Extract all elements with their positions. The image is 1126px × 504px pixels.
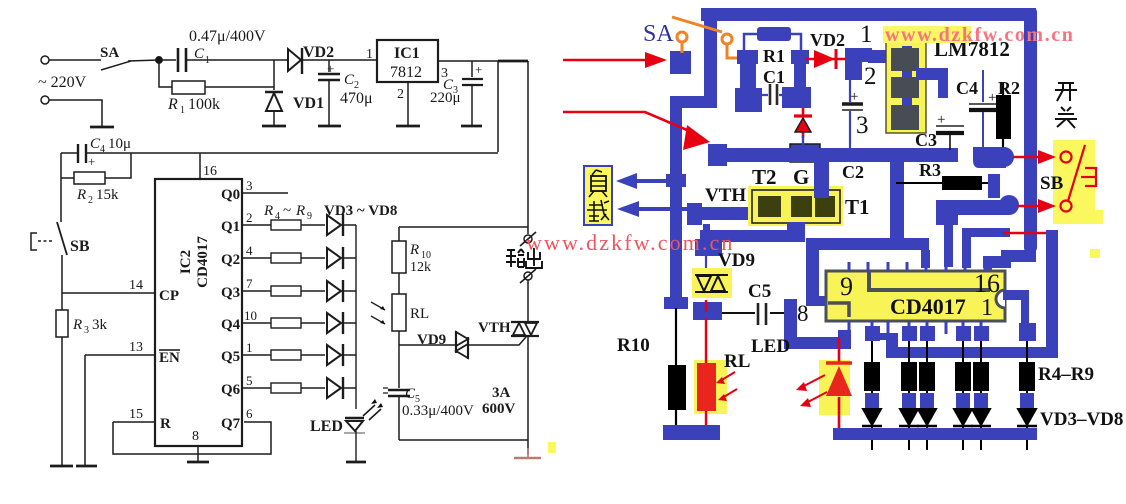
wire node to C1 bbox=[159, 59, 176, 61]
resistor R1 body (blue) bbox=[757, 27, 791, 41]
svg-text:C1: C1 bbox=[763, 67, 785, 87]
capacitor C1 bbox=[762, 94, 788, 96]
svg-text:VTH: VTH bbox=[705, 185, 746, 206]
svg-text:Q6: Q6 bbox=[221, 382, 241, 398]
svg-text:5: 5 bbox=[246, 373, 253, 388]
ground (neutral) bbox=[90, 126, 114, 129]
svg-text:CD4017: CD4017 bbox=[195, 236, 211, 288]
svg-text:1: 1 bbox=[981, 295, 993, 321]
capacitor C3 bbox=[936, 112, 964, 150]
svg-text:8: 8 bbox=[797, 301, 809, 326]
wire trace K + stub bbox=[962, 228, 1010, 237]
svg-text:3: 3 bbox=[84, 325, 89, 336]
wire C5 to bottom bbox=[398, 396, 400, 440]
label 载 (drawn) bbox=[587, 200, 609, 221]
node via pad upper bbox=[973, 147, 1006, 168]
svg-text:8: 8 bbox=[192, 429, 199, 444]
wire RL leads (red) bbox=[705, 318, 707, 430]
wire trace L under chip bbox=[886, 347, 1058, 358]
red arrow to junction pad bbox=[563, 112, 694, 133]
wire +12V rail down to C4 line bbox=[497, 61, 499, 152]
wire R10 top row bbox=[399, 226, 528, 228]
wire red link to SB row3 bbox=[1003, 232, 1053, 234]
resistor/diode column 5 bbox=[971, 341, 991, 450]
resistor R4 bbox=[271, 220, 301, 230]
wire C1 to VD2 bbox=[186, 59, 287, 61]
svg-text:SB: SB bbox=[1040, 173, 1064, 194]
wire R1 to VD1 top bbox=[205, 86, 274, 88]
wire right border bbox=[1024, 8, 1037, 252]
svg-text:R: R bbox=[72, 317, 82, 333]
label 出 (drawn) bbox=[526, 248, 542, 268]
wire R10 to RL bbox=[398, 273, 400, 294]
diode VD8 bbox=[327, 378, 341, 398]
resistor R6 bbox=[271, 286, 301, 296]
svg-text:100k: 100k bbox=[188, 96, 220, 113]
svg-text:1: 1 bbox=[860, 21, 873, 48]
svg-text:14: 14 bbox=[129, 278, 143, 293]
node column6 pad bbox=[1019, 323, 1036, 341]
svg-text:Q5: Q5 bbox=[221, 349, 240, 365]
diac VD9 bbox=[455, 331, 457, 353]
svg-text:VD3–VD8: VD3–VD8 bbox=[1040, 409, 1123, 430]
svg-text:VD2: VD2 bbox=[303, 44, 334, 61]
svg-text:VD1: VD1 bbox=[293, 95, 324, 112]
svg-text:Q2: Q2 bbox=[221, 252, 240, 268]
wire G vertical to trace A bbox=[814, 160, 829, 198]
node via dot upper bbox=[994, 147, 1014, 167]
node pad (col2) bbox=[902, 326, 917, 341]
IC2 CD4017 box bbox=[155, 179, 242, 446]
wire pin8 to ground bbox=[197, 446, 199, 461]
wire pin16 bbox=[199, 153, 201, 179]
svg-text:Q1: Q1 bbox=[221, 219, 240, 235]
wire left border main bbox=[670, 96, 682, 304]
svg-text:IC2: IC2 bbox=[178, 250, 194, 274]
wire IC1 pin3 output bbox=[438, 60, 498, 62]
ground (EN) bbox=[76, 465, 97, 468]
label 开 (drawn) bbox=[1055, 83, 1077, 101]
node C1 right pad column bbox=[782, 50, 811, 108]
svg-text:C4: C4 bbox=[956, 78, 978, 98]
ground (rail, faded) bbox=[514, 457, 541, 460]
resistor R10 bbox=[398, 227, 400, 241]
node pad (col5) bbox=[974, 326, 989, 341]
wire neutral to ground bbox=[49, 100, 102, 126]
wire vertical J to chip pin bbox=[944, 215, 953, 267]
wire node down to R1 bbox=[159, 60, 172, 87]
svg-text:16: 16 bbox=[974, 269, 1000, 298]
resistor R7 bbox=[271, 318, 301, 328]
svg-text:+: + bbox=[327, 61, 334, 76]
resistor R2 (black) bbox=[996, 95, 1011, 139]
wire L left step bbox=[871, 333, 898, 358]
terminal 输出 upper bbox=[524, 235, 532, 243]
row Q5: wire bbox=[242, 354, 356, 356]
node trace A junction pad bbox=[708, 144, 727, 166]
watermark top (highlight) bbox=[883, 26, 971, 43]
node left border arrow pad bbox=[666, 174, 686, 187]
capacitor C3 bbox=[462, 78, 483, 80]
red arrow to SB bottom bbox=[1017, 205, 1040, 207]
svg-text:2: 2 bbox=[397, 87, 404, 102]
node VTH pad bbox=[687, 203, 702, 225]
node VD9 bottom pad bbox=[693, 302, 722, 320]
svg-text:VD9: VD9 bbox=[417, 332, 446, 348]
svg-text:T2: T2 bbox=[752, 165, 777, 189]
regulator LM7812 (yellow body) bbox=[886, 41, 926, 133]
switch SB symbol (red) bbox=[1061, 145, 1097, 212]
resistor/diode column 4 bbox=[953, 341, 973, 450]
resistor/diode column 3 bbox=[917, 341, 937, 450]
capacitor C4 bbox=[78, 144, 86, 163]
wire R2 leads bbox=[1002, 82, 1004, 156]
svg-text:T1: T1 bbox=[845, 195, 870, 219]
svg-text:R4–R9: R4–R9 bbox=[1038, 364, 1094, 385]
capacitor C1 bbox=[178, 48, 186, 72]
ground (VD1) bbox=[262, 125, 286, 128]
red arrow to SB top bbox=[1013, 156, 1040, 158]
svg-text:www.dzkfw.com.cn: www.dzkfw.com.cn bbox=[526, 230, 735, 255]
resistor/diode column 1 bbox=[862, 341, 882, 450]
wire C2 branch bbox=[328, 60, 330, 72]
label 负 (drawn) bbox=[589, 170, 607, 197]
wire trace I (C5 to LED riser) bbox=[784, 299, 851, 349]
svg-text:9: 9 bbox=[840, 272, 853, 301]
switch SA blade bbox=[101, 61, 131, 70]
ground (pin8) bbox=[187, 461, 209, 464]
svg-text:VD3 ~ VD8: VD3 ~ VD8 bbox=[324, 203, 397, 219]
label 输 (drawn) bbox=[506, 249, 524, 267]
diode VD2 bbox=[288, 49, 301, 71]
wire R3 leads bbox=[896, 182, 996, 184]
wire VD1 branch vertical bbox=[273, 60, 275, 90]
wire right column to R4 row bbox=[1046, 230, 1058, 358]
svg-text:3: 3 bbox=[856, 112, 869, 139]
IC pin8 notch bbox=[828, 303, 849, 317]
resistor R9 bbox=[271, 383, 301, 393]
wire chip bottom pins bbox=[849, 321, 981, 334]
svg-text:16: 16 bbox=[203, 164, 217, 179]
resistor/diode column 2 bbox=[899, 341, 919, 450]
node SA pad bbox=[670, 51, 691, 74]
wire R3 left lead over trace bbox=[896, 182, 942, 184]
node left border bottom pad bbox=[664, 297, 688, 309]
node pad (col4) bbox=[956, 326, 971, 341]
wire R1 left lead bbox=[744, 34, 757, 52]
resistor R2 bbox=[74, 172, 105, 184]
terminal L (live) bbox=[41, 56, 49, 64]
wire VTH to bottom rail bbox=[527, 336, 529, 455]
svg-text:7: 7 bbox=[246, 276, 253, 291]
pin pad T2 bbox=[758, 196, 781, 217]
svg-text:R: R bbox=[409, 242, 419, 258]
wire VTH pad to T-block bbox=[698, 207, 752, 220]
svg-text:www.dzkfw.com.cn: www.dzkfw.com.cn bbox=[885, 24, 1075, 46]
node pad after VD2 (pin1 area) bbox=[845, 48, 872, 80]
svg-text:4: 4 bbox=[275, 211, 280, 222]
svg-text:600V: 600V bbox=[482, 401, 516, 417]
photoresistor RL (yellow+red) bbox=[694, 360, 727, 414]
wire R3 right elbow to via bbox=[988, 174, 1000, 198]
svg-text:220μ: 220μ bbox=[430, 90, 461, 106]
node trace E left pad bbox=[936, 200, 958, 225]
svg-text:VTH: VTH bbox=[478, 320, 511, 336]
wire SB to CP node bbox=[61, 255, 63, 310]
wire Z from border to pin16 bbox=[984, 250, 1036, 271]
wire blue bar behind pads bbox=[902, 46, 912, 130]
wire R3 to ground bbox=[61, 337, 63, 466]
ground (LED) bbox=[346, 461, 366, 464]
node A junction dot bbox=[156, 57, 162, 63]
wire C2 to trace A bbox=[849, 80, 851, 148]
svg-text:13: 13 bbox=[129, 340, 143, 355]
pin pad 1 (LM7812) bbox=[891, 48, 919, 71]
wire LED to ground bbox=[355, 431, 357, 462]
wire G right stub to chip pin bbox=[921, 250, 930, 268]
svg-text:R: R bbox=[167, 96, 178, 113]
svg-text:C: C bbox=[194, 46, 205, 62]
svg-text:RL: RL bbox=[410, 306, 429, 322]
wire pin1 elbow to column 6 bbox=[1003, 290, 1029, 323]
resistor R5 bbox=[271, 253, 301, 263]
wire H foot into pin8/9 bbox=[806, 296, 828, 306]
node R10/RL bottom bar bbox=[663, 425, 720, 440]
capacitor C5 bbox=[388, 389, 410, 391]
wire T1 pad down bbox=[787, 222, 805, 242]
pin pad 3 (LM7812) bbox=[891, 105, 919, 130]
svg-text:R3: R3 bbox=[919, 160, 941, 180]
wire C5 branch bbox=[398, 345, 400, 388]
wire C3 to ground bbox=[471, 85, 473, 126]
wire R1 right lead bbox=[791, 34, 801, 52]
svg-text:C5: C5 bbox=[748, 281, 771, 302]
ground (C3) bbox=[461, 125, 482, 128]
diode VD3 bbox=[327, 215, 341, 235]
wire trace G horizontal bbox=[806, 238, 929, 250]
LED arrows bbox=[363, 405, 381, 420]
svg-text:CD4017: CD4017 bbox=[890, 294, 966, 319]
wire right rail down bbox=[527, 61, 529, 234]
wire load arrow 1 bbox=[636, 179, 667, 183]
svg-text:1: 1 bbox=[205, 55, 210, 66]
svg-text:4: 4 bbox=[100, 144, 105, 155]
diode VD1 bbox=[265, 91, 283, 93]
LED arrows (red) bbox=[802, 375, 827, 403]
svg-text:CP: CP bbox=[159, 288, 179, 304]
capacitor C4 bbox=[969, 70, 997, 148]
wire C2 to ground bbox=[328, 80, 330, 126]
resistor/diode column 6 bbox=[1017, 341, 1037, 450]
wire RL to VD9 node bbox=[398, 331, 400, 345]
svg-text:C3: C3 bbox=[915, 130, 937, 150]
diode VD1 (red, right panel) bbox=[794, 100, 812, 150]
svg-text:~: ~ bbox=[283, 203, 291, 219]
svg-text:1: 1 bbox=[246, 340, 253, 355]
svg-text:SA: SA bbox=[100, 45, 119, 61]
switch SB highlight (yellow) bbox=[1053, 140, 1095, 224]
wire C4 top rail bbox=[61, 152, 498, 154]
svg-text:3: 3 bbox=[246, 178, 253, 193]
red arrow to SA pad bbox=[563, 59, 646, 62]
svg-text:LED: LED bbox=[310, 418, 343, 435]
svg-text:10μ: 10μ bbox=[108, 136, 131, 152]
svg-text:SA: SA bbox=[643, 21, 674, 47]
row Q4: wire bbox=[242, 322, 356, 324]
wire load arrow 2 bbox=[638, 207, 690, 211]
wire trace E bbox=[936, 200, 1009, 215]
svg-text:SB: SB bbox=[70, 238, 90, 255]
svg-text:EN: EN bbox=[159, 350, 180, 366]
diac VD9 (yellow + symbol) bbox=[692, 268, 732, 298]
node 负载 box bbox=[584, 166, 612, 225]
IC CD4017 (yellow body) bbox=[826, 271, 1005, 321]
pin pad T1 bbox=[815, 196, 835, 217]
svg-text:R: R bbox=[76, 187, 86, 203]
wire R2 taps bbox=[61, 153, 131, 178]
wire VD2 to IC1 pin1 bbox=[302, 59, 377, 61]
wire SA to node bbox=[128, 60, 159, 61]
svg-text:0.33μ/400V: 0.33μ/400V bbox=[402, 403, 474, 419]
svg-text:12k: 12k bbox=[410, 260, 431, 275]
svg-text:+: + bbox=[850, 89, 858, 105]
LED indicator bbox=[345, 417, 364, 419]
diode VD2 (red) bbox=[806, 49, 856, 69]
resistor R3 bbox=[56, 310, 68, 337]
switch SA (orange) bbox=[672, 17, 744, 58]
node pad bump on trace A bbox=[790, 144, 820, 162]
wire main +供电 trace A bbox=[708, 148, 958, 162]
terminal 输出 lower bbox=[524, 272, 532, 280]
svg-text:G: G bbox=[793, 165, 809, 189]
wire bottom row bbox=[399, 439, 528, 441]
svg-text:2: 2 bbox=[246, 210, 253, 225]
wire T2 stem down bbox=[703, 224, 710, 242]
svg-text:6: 6 bbox=[246, 406, 253, 421]
op-amp IC1 7812 box bbox=[377, 40, 438, 82]
svg-text:470μ: 470μ bbox=[340, 90, 373, 107]
wire diode bus vertical bbox=[355, 225, 357, 409]
node via dot lower bbox=[999, 195, 1019, 215]
resistor R10 (black) bbox=[668, 365, 686, 410]
svg-text:R10: R10 bbox=[617, 335, 650, 356]
wire ground bar bottom bbox=[833, 428, 1037, 440]
diode VD4 bbox=[327, 248, 341, 268]
node VD9 top pad bbox=[695, 239, 722, 256]
svg-text:15k: 15k bbox=[96, 187, 119, 203]
wire node to VD9 bbox=[399, 344, 456, 346]
svg-text:9: 9 bbox=[307, 211, 312, 222]
resistor R1 bbox=[172, 81, 205, 94]
svg-text:+: + bbox=[88, 154, 95, 169]
wire C3 branch bbox=[471, 61, 473, 77]
IC pin1 notch bbox=[996, 290, 1005, 308]
terminal N (neutral) bbox=[41, 96, 49, 104]
capacitor C2 bbox=[842, 102, 863, 106]
ground (C2) bbox=[318, 125, 341, 128]
node C1 left pad column bbox=[735, 50, 762, 112]
photoresistor RL bbox=[392, 294, 406, 331]
wire CP row bbox=[62, 292, 155, 294]
LED (yellow + red) bbox=[819, 360, 850, 415]
wire stub LM7812 right bbox=[916, 68, 948, 80]
svg-text:Q4: Q4 bbox=[221, 317, 241, 333]
triac T-block (yellow) bbox=[748, 186, 843, 226]
resistor R3 (black) bbox=[942, 176, 982, 190]
svg-text:Q7: Q7 bbox=[221, 416, 241, 432]
wire T1 trace to VD9 chain bbox=[700, 230, 792, 242]
RL arrows (red) bbox=[720, 372, 737, 398]
wire VD9 to VTH gate bbox=[468, 337, 526, 345]
svg-text:~ 220V: ~ 220V bbox=[38, 74, 87, 91]
diode VD5 bbox=[327, 281, 341, 301]
wire left branch down bbox=[60, 153, 62, 222]
diode VD6 bbox=[327, 313, 341, 333]
row Q6: wire bbox=[242, 387, 356, 389]
resistor R8 bbox=[271, 350, 301, 360]
row Q1: wire bbox=[242, 224, 356, 226]
wire pin1 pad to LM7812 bbox=[868, 50, 892, 63]
wire trace H chip-left vertical bbox=[806, 238, 819, 304]
svg-text:4: 4 bbox=[246, 243, 253, 258]
svg-text:C2: C2 bbox=[842, 162, 864, 182]
pin pad 2 (LM7812) bbox=[891, 77, 919, 98]
wire top border trace bbox=[701, 8, 1036, 21]
svg-text:1: 1 bbox=[366, 47, 373, 62]
svg-text:3A: 3A bbox=[492, 385, 511, 401]
svg-text:Q0: Q0 bbox=[221, 187, 240, 203]
svg-text:LED: LED bbox=[751, 336, 790, 357]
wire trace C (A down to G) bbox=[890, 158, 904, 244]
svg-text:VD2: VD2 bbox=[810, 30, 845, 50]
svg-text:+: + bbox=[475, 62, 482, 77]
svg-text:15: 15 bbox=[129, 407, 143, 422]
wire live to SA bbox=[49, 59, 101, 61]
svg-text:2: 2 bbox=[864, 63, 877, 90]
svg-text:R: R bbox=[160, 416, 171, 432]
svg-text:RL: RL bbox=[724, 351, 750, 372]
svg-text:Q3: Q3 bbox=[221, 285, 240, 301]
负载 arrows (blue) bbox=[616, 173, 690, 217]
svg-text:R2: R2 bbox=[998, 78, 1020, 98]
wire pin15 R row bbox=[113, 421, 155, 423]
wire chip top pins bbox=[849, 262, 985, 271]
svg-text:R1: R1 bbox=[763, 46, 785, 66]
tiny yellow mark right bbox=[1090, 249, 1100, 258]
node pad (col1) bbox=[865, 326, 880, 341]
wire pad to VD9 bbox=[705, 256, 707, 270]
wire IC1 pin2 to ground bbox=[407, 82, 409, 126]
svg-text:7812: 7812 bbox=[390, 64, 422, 81]
tiny yellow mark bottom left bbox=[548, 442, 556, 453]
resistors R4-R9 columns bbox=[865, 326, 989, 341]
row Q3: wire bbox=[242, 290, 356, 292]
svg-text:R: R bbox=[263, 203, 273, 219]
pushbutton SB bbox=[31, 233, 37, 250]
IC divider line bbox=[869, 272, 990, 290]
wire left border upper bbox=[704, 8, 717, 103]
ground (R3) bbox=[50, 465, 73, 468]
capacitor C5 bbox=[722, 312, 789, 314]
svg-text:1: 1 bbox=[180, 105, 185, 116]
svg-text:R: R bbox=[295, 203, 305, 219]
diode VD7 bbox=[327, 345, 341, 365]
svg-text:3k: 3k bbox=[92, 317, 108, 333]
wire rail to VTH bbox=[527, 280, 529, 322]
pin pad G bbox=[791, 196, 812, 217]
wire EN down bbox=[84, 355, 86, 466]
wire EN row bbox=[85, 354, 155, 356]
